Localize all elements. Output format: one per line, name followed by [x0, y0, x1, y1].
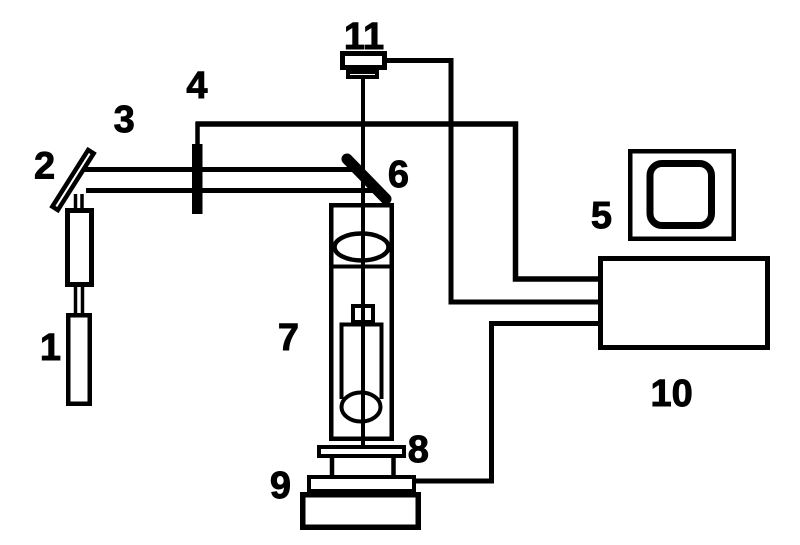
- sample vial cap: [353, 306, 373, 322]
- monitor 5: [630, 151, 734, 239]
- filter 4: [192, 144, 203, 214]
- lens mount line: [331, 265, 392, 269]
- svg-text:2: 2: [34, 146, 55, 188]
- svg-text:5: 5: [591, 195, 612, 237]
- svg-text:7: 7: [278, 317, 299, 359]
- wire from filter 4 to computer 10: [196, 122, 600, 280]
- tube collimator: [68, 211, 92, 285]
- svg-text:8: 8: [408, 429, 429, 471]
- beam neck laser to tube: [76, 283, 83, 316]
- detector 11: [343, 54, 385, 78]
- beam neck tube to mirror: [76, 194, 83, 210]
- stage plate 8: [319, 447, 404, 456]
- wire from detector 11 to computer 10: [385, 61, 600, 303]
- svg-text:10: 10: [651, 373, 693, 415]
- computer 10: [601, 259, 768, 348]
- pedestal: [332, 456, 394, 477]
- svg-text:1: 1: [40, 327, 61, 369]
- svg-text:6: 6: [388, 154, 409, 196]
- laser 1: [68, 315, 90, 404]
- beam upper line 3: [83, 167, 352, 172]
- optical axis vertical beam: [361, 79, 365, 447]
- svg-text:9: 9: [270, 465, 291, 507]
- stage base: [303, 495, 419, 528]
- sample vial body: [342, 325, 382, 400]
- svg-text:4: 4: [186, 65, 207, 107]
- sample vial bottom: [342, 393, 381, 422]
- svg-text:3: 3: [114, 99, 135, 141]
- mirror 2: [52, 150, 93, 210]
- wire from stage 9 to computer 10: [415, 324, 600, 482]
- lens: [335, 234, 389, 261]
- svg-text:11: 11: [344, 16, 384, 58]
- beam splitter 6: [347, 159, 386, 199]
- beam lower line 3: [86, 188, 383, 193]
- stage platform 9: [309, 477, 414, 491]
- microscope column 7: [331, 205, 392, 439]
